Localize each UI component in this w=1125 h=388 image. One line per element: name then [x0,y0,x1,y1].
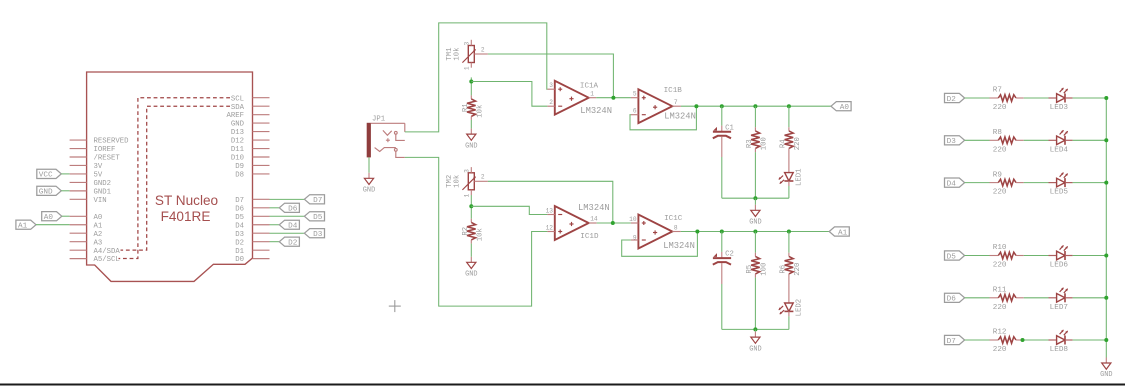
svg-text:100: 100 [760,263,768,276]
svg-text:D7: D7 [313,197,323,205]
svg-text:D4: D4 [235,222,244,230]
net tag D4 (led row) [945,178,965,188]
IC1C pin numbers 10 9 8 [629,216,678,242]
IC1A labels [580,83,612,116]
wire LED8 to rail [1073,339,1107,341]
op-amp IC1B [638,89,672,123]
wire U1 D7 pin to tag [270,198,305,200]
svg-text:GND: GND [749,345,761,353]
wire D6 to R11 [965,297,990,299]
svg-text:220: 220 [993,304,1007,312]
wire U1 D6 pin to tag [270,207,280,209]
svg-text:GND1: GND1 [94,188,112,196]
ground below R2 [465,257,477,279]
IC1A pin stubs [547,89,596,106]
svg-text:D7: D7 [235,197,244,205]
svg-text:GND2: GND2 [94,180,112,188]
net SDA dashed wire [121,106,231,250]
node junction rail [1104,96,1108,100]
wire U1 D3 pin to tag [270,232,305,234]
wire R11 to LED7 [1024,297,1049,299]
LED2 [779,299,804,317]
U1 left pin names [94,138,130,265]
net SCL dashed wire [119,98,231,259]
net tag D5 (led row) [945,251,965,261]
net tag A1 (opamp out) [829,227,849,237]
svg-text:GND: GND [363,187,375,195]
wire R3 to rail [754,152,756,198]
wire D3 to R8 [965,139,990,141]
svg-text:ST Nucleo: ST Nucleo [155,193,218,208]
trimmer TM2 10k [446,167,488,197]
node junction rail1 [753,196,757,200]
U1 left pin stubs [70,140,87,259]
node junction rail [1104,181,1108,185]
svg-text:R8: R8 [993,129,1003,137]
svg-text:D5: D5 [313,214,323,222]
net tag D7 [304,195,324,205]
wire U1 D5 pin to tag [270,215,305,217]
svg-text:220: 220 [794,263,802,276]
net tag D6 [279,203,299,213]
IC1D labels [578,203,610,241]
svg-text:R9: R9 [993,171,1003,179]
net tag A0 (opamp out) [831,102,851,112]
IC1B labels [664,87,696,122]
resistor R9 220 [990,171,1024,196]
svg-text:D6: D6 [288,206,298,214]
node junction C1 [720,104,724,108]
node junction R5 [753,230,757,234]
svg-text:10k: 10k [453,174,461,188]
node junction TM2/R2 [469,204,473,208]
svg-text:R10: R10 [993,244,1007,252]
wire ground rail block2 [722,328,789,330]
svg-text:2: 2 [481,174,485,181]
wire IC1A output to IC1B noninverting input [596,97,631,99]
svg-text:D10: D10 [231,155,244,163]
svg-text:9: 9 [633,234,637,241]
svg-text:5: 5 [633,91,637,98]
svg-text:1: 1 [464,66,471,70]
ground below R1 [465,129,477,151]
node junction R3 [753,104,757,108]
svg-text:SDA: SDA [231,104,245,112]
svg-text:A4/SDA: A4/SDA [94,248,121,256]
wire LED5 to rail [1073,182,1107,184]
svg-text:3: 3 [464,169,471,173]
wire TM2 bottom to R2 [470,195,472,219]
svg-text:10k: 10k [453,47,461,61]
svg-text:D6: D6 [235,205,244,213]
connector JP1 audio jack [367,115,405,157]
svg-text:R12: R12 [993,329,1007,337]
wire TM1 wiper to IC1A output [488,54,614,98]
svg-text:LED3: LED3 [1050,104,1069,112]
svg-text:LM324N: LM324N [663,241,695,251]
svg-text:10k: 10k [477,228,485,242]
LED LED5 [1049,172,1073,196]
svg-text:13: 13 [546,207,554,214]
LED LED8 [1049,330,1073,354]
svg-text:D7: D7 [947,338,957,346]
net tag D2 [279,237,299,247]
svg-text:IOREF: IOREF [94,146,116,154]
U1 right pin names [226,95,244,264]
node junction rail2 [753,327,757,331]
node junction feedback on output2 [695,230,699,234]
svg-text:5V: 5V [94,172,103,180]
wire R12 to LED8 [1024,339,1049,341]
wire ground rail block1 [722,197,789,199]
svg-text:D9: D9 [235,163,244,171]
svg-text:A0: A0 [840,104,850,112]
node junction IC1D output / TM2 wiper [611,221,615,225]
svg-text:C2: C2 [725,251,734,259]
svg-text:IC1A: IC1A [580,83,599,91]
resistor R10 220 [990,244,1024,269]
wire IC1B feedback loop [630,106,696,130]
svg-text:VIN: VIN [94,197,107,205]
svg-text:A3: A3 [94,239,103,247]
wire rail2 to ground [754,329,756,331]
resistor R12 220 [990,329,1024,354]
svg-text:RESERVED: RESERVED [94,138,130,146]
svg-text:LED2: LED2 [795,299,803,317]
module U1 ST Nucleo F401RE board outline [87,72,253,281]
wire TM2 wiper to IC1D output [488,181,613,223]
node junction TM1/R1 [469,80,473,84]
svg-text:R7: R7 [993,87,1002,95]
svg-text:220: 220 [993,262,1007,270]
ground below right rail [1100,358,1112,380]
wire A1 to A1 pin [36,224,70,226]
IC1D pin stubs [547,215,596,232]
wire rail1 to ground [754,198,756,205]
wire A0 to A0 pin [62,215,70,217]
svg-text:D11: D11 [231,146,245,154]
svg-text:LED7: LED7 [1050,304,1069,312]
net tag A0 [42,212,62,222]
svg-text:10k: 10k [477,104,485,118]
svg-text:D0: D0 [235,256,244,264]
node junction feedback on output [694,104,698,108]
svg-text:R11: R11 [993,287,1007,295]
LED LED3 [1049,88,1073,112]
svg-text:3V: 3V [94,163,103,171]
svg-text:220: 220 [993,346,1007,354]
svg-text:LED5: LED5 [1050,189,1069,197]
wire to C2 [721,232,723,252]
svg-text:IC1B: IC1B [664,87,683,95]
svg-text:A1: A1 [838,229,848,237]
svg-text:R3: R3 [746,139,754,148]
wire R7 to LED3 [1024,97,1049,99]
wire IC1C feedback loop [622,232,698,257]
wire right ground rail [1105,98,1107,358]
wire R9 to LED5 [1024,182,1049,184]
svg-text:D5: D5 [235,214,244,222]
wire R5 to rail2 [754,278,756,330]
wire R1 to ground [470,120,472,129]
net tag GND [37,186,62,196]
svg-text:GND: GND [39,189,53,197]
wire to C1 [721,106,723,125]
svg-text:D6: D6 [947,296,957,304]
net tag D7 (led row) [945,335,965,345]
capacitor C2 polarized [713,251,734,284]
wire D4 to R9 [965,182,990,184]
svg-text:A0: A0 [94,214,103,222]
node junction rail [1104,296,1108,300]
svg-text:220: 220 [794,137,802,150]
node junction rail [1104,254,1108,258]
wire VCC to 5V pin [61,173,69,175]
resistor R11 220 [990,287,1024,312]
node junction R6 [787,230,791,234]
svg-text:GND: GND [1100,371,1112,379]
wire IC1C output bus to tag A1 [681,231,830,233]
wire to R6 [788,232,790,253]
svg-text:GND: GND [231,121,245,129]
svg-text:R5: R5 [746,265,754,274]
svg-text:C1: C1 [725,124,734,132]
svg-text:VCC: VCC [39,172,53,180]
svg-text:D4: D4 [947,180,957,188]
svg-text:2: 2 [549,99,553,106]
svg-text:2: 2 [481,46,485,53]
IC1B pin numbers 5 6 7 [633,91,678,115]
svg-text:LED8: LED8 [1050,346,1069,354]
svg-text:R4: R4 [779,139,787,148]
svg-text:D2: D2 [288,239,298,247]
resistor R5 100 [746,253,769,278]
net tag D5 [304,212,324,222]
svg-text:A1: A1 [94,222,103,230]
wire R10 to LED6 [1024,255,1049,257]
svg-text:A0: A0 [44,214,54,222]
wire D2 to R7 [965,97,990,99]
module U1 title text [155,193,218,224]
svg-text:10: 10 [629,216,637,223]
node junction R4 [787,104,791,108]
wire IC1B output bus to tag A0 [681,105,831,107]
op-amp IC1C [638,215,672,249]
wire JP1 ring to IC1D noninverting input (bottom route) [405,157,548,306]
svg-text:A1: A1 [18,223,28,231]
svg-text:7: 7 [674,99,678,106]
svg-text:D8: D8 [235,172,244,180]
wire U1 D2 pin to tag [270,241,280,243]
svg-text:D12: D12 [231,138,244,146]
sheet frame bottom border [0,384,1125,386]
svg-text:D2: D2 [235,239,244,247]
svg-text:D4: D4 [288,223,298,231]
resistor R7 220 [990,87,1024,112]
wire C1 to rail [721,157,723,198]
svg-text:GND: GND [749,219,761,227]
op-amp IC1D (mirrored) [555,206,589,240]
op-amp IC1A [555,81,589,115]
wire LED3 to rail [1073,97,1107,99]
wire junction to IC1D inverting input [471,206,547,214]
wire JP1 tip to IC1A noninverting input (top route) [405,23,548,132]
svg-text:D5: D5 [947,253,957,261]
node junction IC1A output / TM1 wiper [611,96,615,100]
net tag A1 [16,220,36,230]
svg-text:D1: D1 [235,248,244,256]
svg-text:3: 3 [464,42,471,46]
svg-text:R1: R1 [462,103,470,112]
wire JP1 sleeve to ground [368,157,370,172]
U1 right pin stubs [253,98,270,259]
svg-text:3: 3 [549,82,553,89]
LED LED6 [1049,245,1073,269]
wire LED6 to rail [1073,255,1107,257]
svg-text:D2: D2 [947,96,957,104]
wire TM1 bottom to R1 [470,77,472,95]
wire to R3 [754,106,756,127]
IC1D pin numbers 13 12 14 [546,207,598,231]
LED LED4 [1049,130,1073,154]
trimmer TM1 10k [446,40,488,70]
svg-text:LED1: LED1 [795,168,803,186]
resistor R2 10k [462,219,484,244]
net tag D3 [304,229,324,239]
net tag D4 [279,220,299,230]
svg-text:100: 100 [760,137,768,150]
resistor R6 220 [779,253,802,303]
svg-text:LM324N: LM324N [580,106,612,116]
IC1C labels [663,215,695,251]
wire to R5 [754,232,756,253]
svg-text:R2: R2 [462,227,470,236]
svg-text:F401RE: F401RE [161,209,211,224]
svg-text:LM324N: LM324N [664,111,696,121]
wire R8 to LED4 [1024,139,1049,141]
node junction rail [1104,138,1108,142]
svg-text:AREF: AREF [226,112,244,120]
svg-text:1: 1 [464,193,471,197]
svg-text:JP1: JP1 [372,115,386,123]
svg-text:D3: D3 [235,231,244,239]
ground below rail1 [749,205,761,227]
net tag VCC [37,169,62,179]
resistor R3 100 [746,127,769,152]
svg-text:GND: GND [465,142,477,150]
svg-text:A2: A2 [94,231,103,239]
wire LED2 to rail2 [788,316,790,329]
node junction C2 [720,230,724,234]
wire LED1 to rail [788,186,790,198]
IC1B pin stubs [631,98,681,115]
svg-text:LED4: LED4 [1050,146,1069,154]
net tag D6 (led row) [945,293,965,303]
svg-text:SCL: SCL [231,95,244,103]
IC1C pin stubs [631,223,681,240]
svg-text:R6: R6 [779,265,787,274]
svg-text:LED6: LED6 [1050,262,1069,270]
sheet origin crosshair [389,300,401,312]
LED LED7 [1049,287,1073,311]
wire junction to IC1A inverting input [471,82,547,107]
wire U1 D4 pin to tag [270,224,280,226]
svg-text:GND: GND [465,271,477,279]
wire D5 to R10 [965,255,990,257]
svg-text:IC1D: IC1D [580,233,599,241]
svg-text:220: 220 [993,189,1007,197]
wire IC1D output to IC1C noninverting input [597,222,631,224]
svg-text:12: 12 [546,224,554,231]
net tag D2 (led row) [945,93,965,103]
wire C2 to rail2 [721,284,723,329]
resistor R1 10k [462,95,484,120]
ground below rail2 [749,332,761,354]
wire to R4 [788,106,790,127]
svg-text:LM324N: LM324N [578,203,610,213]
svg-text:D3: D3 [313,231,323,239]
LED1 [779,168,804,186]
node junction after R12 [1021,338,1025,342]
resistor R4 220 [779,127,802,172]
svg-text:220: 220 [993,104,1007,112]
svg-text:/RESET: /RESET [94,155,121,163]
net tag D3 (led row) [945,136,965,146]
wire GND to GND1 pin [61,190,69,192]
svg-text:1: 1 [590,90,594,97]
svg-text:220: 220 [993,146,1007,154]
svg-text:6: 6 [633,108,637,115]
resistor R8 220 [990,129,1024,154]
svg-text:D13: D13 [231,129,244,137]
svg-text:A5/SCL: A5/SCL [94,256,120,264]
svg-text:8: 8 [674,224,678,231]
svg-text:14: 14 [590,216,598,223]
wire LED4 to rail [1073,139,1107,141]
svg-text:D3: D3 [947,138,957,146]
IC1A pin numbers 3 2 1 [549,82,594,106]
capacitor C1 100n polarized [713,124,735,157]
wire R2 to ground [470,244,472,257]
wire LED7 to rail [1073,297,1107,299]
ground below JP1 [363,173,375,195]
svg-text:IC1C: IC1C [664,215,683,223]
node junction rail [1104,338,1108,342]
wire D7 to R12 [965,339,990,341]
